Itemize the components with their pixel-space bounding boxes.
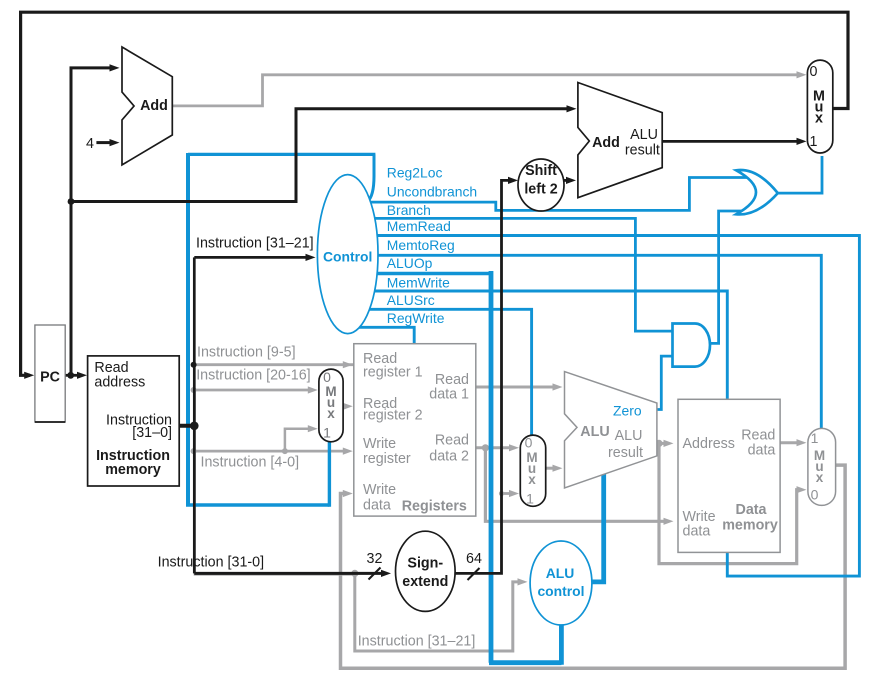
wire Data memory Read data to final mux input 1 [780,441,797,444]
arrowhead into final mux 1 [797,439,807,446]
svg-text:Instruction [9-5]: Instruction [9-5] [197,344,296,360]
svg-text:Zero: Zero [613,402,642,418]
wire constant 4 into Add [96,141,111,144]
arrowhead into ALU bottom input [553,465,563,472]
svg-text:data 2: data 2 [429,448,469,464]
wire Read data 2 to ALUSrc mux input 0 [476,446,510,449]
svg-text:Write: Write [363,436,396,452]
arrowhead PC+4 into Mux 0 [797,71,807,78]
control unit oval [317,175,378,334]
svg-text:1: 1 [811,430,819,446]
svg-text:ALUSrc: ALUSrc [387,292,435,308]
junction dot sign-extend input [351,570,358,577]
wire branch Add result to PCsrc mux input 1 [662,140,798,143]
svg-text:register: register [363,451,411,467]
wire Read data 2 branch to Data memory Write data [485,448,665,522]
wire ALU control output to ALU control port [590,471,604,582]
svg-text:Address: Address [683,436,735,452]
svg-text:Uncondbranch: Uncondbranch [387,184,477,200]
svg-text:result: result [625,143,660,159]
slash 64-bit bus mark [468,568,480,580]
junction dot ALU result branch [655,440,662,447]
arrowhead Instruction [31-21] into Control [306,254,316,261]
svg-text:0: 0 [810,64,818,80]
arrowhead into PC [24,372,34,379]
svg-text:Add: Add [592,135,620,151]
svg-text:MemRead: MemRead [387,218,451,234]
wire ALU result branch to final mux input 0 [659,443,798,563]
svg-text:x: x [815,111,823,127]
wire gray bus sliver between field taps [195,390,355,575]
svg-text:Instruction [31–21]: Instruction [31–21] [196,236,314,252]
svg-text:ALU: ALU [630,127,658,143]
svg-text:register 2: register 2 [363,408,423,424]
wire Uncondbranch control signal to OR gate top input [366,178,748,211]
ALUSrc mux [520,435,545,506]
OR gate [736,170,778,214]
svg-text:Read: Read [741,428,775,444]
svg-text:[31–0]: [31–0] [132,425,172,441]
svg-text:control: control [537,583,584,599]
PCsrc mux (top right) [807,60,832,153]
data memory box [678,399,780,552]
wire 64-bit sign-extend branch to ALUSrc mux input 1 [502,492,511,495]
arrowhead into Write register [343,448,353,455]
wire ALU result to Data memory Address [657,442,665,445]
wire PC value up to Add input and branch-adder line [71,68,112,375]
wire PC value to branch Add top input [71,109,569,202]
svg-text:Reg2Loc: Reg2Loc [387,164,443,180]
svg-text:x: x [528,472,536,487]
svg-text:data: data [683,524,711,540]
arrowhead Instruction [31-0] into Sign-extend [381,570,391,577]
svg-text:1: 1 [323,425,331,441]
svg-text:memory: memory [105,462,161,478]
wire MemRead control signal to Data memory read port [374,236,859,577]
arrowhead into Add top input [110,64,120,71]
svg-text:Add: Add [140,98,168,114]
arrowhead into branch Add top input [567,105,577,112]
svg-text:memory: memory [722,518,778,534]
svg-text:64: 64 [466,551,482,567]
arrowhead into ALUSrc mux 0 [509,444,519,451]
arrowhead into ALU control [518,578,528,585]
arrowhead into Registers Write data [343,490,353,497]
svg-text:result: result [608,445,643,461]
arrowhead Shift left 2 output into branch Add [566,177,576,184]
wire instruction bus vertical [193,257,196,573]
wire Instruction [31-21] to ALU control [355,573,519,651]
wire Branch control signal to AND gate top input [370,218,676,331]
registers box [354,344,476,516]
svg-text:Data: Data [736,502,768,518]
svg-text:PC: PC [40,370,60,386]
svg-text:data 1: data 1 [429,387,469,403]
svg-text:Read: Read [435,433,469,449]
svg-text:Control: Control [323,249,372,265]
arrowhead into Reg2Loc mux 0 [308,386,318,393]
svg-text:ALUOp: ALUOp [387,255,433,271]
wire Reg2Loc mux output to Read register 2 [342,405,346,408]
instruction memory box [88,356,180,486]
adder Add (PC+4) [122,47,172,165]
svg-text:1: 1 [526,491,534,507]
PC register box [35,325,65,422]
svg-text:data: data [363,497,391,513]
svg-text:Instruction [31–21]: Instruction [31–21] [358,634,476,650]
svg-text:32: 32 [367,551,383,567]
Reg2Loc mux [319,369,343,442]
wire RegWrite control signal to Registers write port [358,327,414,347]
svg-text:Branch: Branch [387,202,431,218]
wire PC+4 from Add to Mux input 0 [172,75,797,106]
svg-text:address: address [94,375,145,391]
svg-text:left 2: left 2 [524,182,557,198]
arrowhead into final mux 0 [797,486,807,493]
slash 32-bit bus mark [369,568,381,580]
wire write-back from final mux output to Registers Write data [341,465,846,668]
junction dot Instruction [9-5] [191,362,197,368]
arrowhead into ALUSrc mux 1 [509,490,519,497]
svg-text:MemWrite: MemWrite [387,275,450,291]
wire ALUSrc control signal to ALUSrc mux select [368,309,532,439]
wire Sign-extend 64-bit output up to Shift left 2 [454,180,511,573]
wire Read data 1 to ALU input [476,386,554,389]
shift left 2 oval [518,159,564,211]
svg-text:Instruction [4-0]: Instruction [4-0] [201,455,300,471]
junction dot PC to branch adder [68,198,75,205]
arrowhead into Instruction memory Read address [77,372,87,379]
svg-text:Sign-: Sign- [407,556,443,572]
svg-text:x: x [816,470,824,485]
wire Zero output of ALU to AND gate bottom input [657,356,676,409]
svg-text:data: data [748,442,776,458]
wire MemWrite control signal to Data memory write port [373,291,727,403]
svg-text:ALU: ALU [580,424,609,440]
junction dot 64-bit branch to ALUSrc mux [499,491,504,496]
svg-text:4: 4 [86,136,94,152]
svg-text:0: 0 [323,369,331,385]
wire MemtoReg control signal to final mux select [376,255,821,432]
svg-text:RegWrite: RegWrite [387,310,445,326]
wire AND gate output to OR gate bottom input [709,211,748,343]
arrowhead into Reg2Loc mux 1 [308,425,318,432]
wire PC feedback loop from PCsrc mux output around top to PC input [21,12,848,375]
arrowhead into Data memory Address [664,440,674,447]
svg-text:ALU: ALU [615,428,643,444]
arrowhead into Read register 2 [343,403,353,410]
ALU [565,372,657,488]
arrowhead 4 into Add [110,139,120,146]
svg-text:Instruction [20-16]: Instruction [20-16] [196,367,310,383]
sign-extend oval [396,531,456,611]
svg-text:extend: extend [402,574,448,590]
MemtoReg final mux [808,428,836,505]
svg-text:register 1: register 1 [363,365,423,381]
junction dot Instruction [4-0] branch [282,448,288,454]
wire Instruction [4-0] branch to Reg2Loc mux input 1 [285,429,309,451]
ALU control oval [530,541,592,625]
svg-text:Write: Write [683,509,716,525]
wire PC output to Instruction memory Read address [65,374,79,377]
svg-text:0: 0 [525,435,533,451]
svg-text:x: x [327,406,335,421]
wire Instruction [4-0] to Write register [194,450,344,453]
svg-text:1: 1 [810,134,818,150]
wire ALUSrc mux output to ALU input [546,467,553,470]
wire ALUOp control signal to ALU control [375,272,491,276]
wire Instruction [31-21] to Control [194,256,308,259]
arrowhead into ALU top input [553,383,563,390]
svg-text:Shift: Shift [525,163,557,179]
junction dot Read data 2 branch [482,444,489,451]
AND gate [673,324,710,367]
svg-text:MemtoReg: MemtoReg [387,237,455,253]
wire Shift left 2 output to branch Add bottom input [562,179,569,182]
wire Instruction [9-5] to Read register 1 [194,363,353,366]
svg-text:Instruction [31-0]: Instruction [31-0] [158,555,265,571]
wire OR gate output to PCsrc mux select [777,156,822,193]
arrowhead into Data memory Write data [664,518,674,525]
svg-text:Write: Write [363,482,396,498]
wire Reg2Loc control signal to Reg2Loc mux select [368,154,375,201]
adder Add (branch target) [578,83,662,198]
wire Instruction [20-16] to Reg2Loc mux input 0 [194,389,309,392]
arrowhead into Read register 1 [343,361,353,368]
wire Instruction memory output stub [179,424,196,428]
svg-text:ALU: ALU [546,565,575,581]
junction dot instruction bus main [190,422,199,431]
wire Instruction [31-0] to Sign-extend [194,572,383,575]
svg-text:Registers: Registers [402,499,467,515]
junction dot PC output [67,372,74,379]
arrowhead into Shift left 2 [508,177,518,184]
svg-text:0: 0 [811,487,819,503]
junction dot Instruction [4-0] [191,448,197,454]
junction dot Instruction [20-16] [191,387,197,393]
arrowhead branch Add result into PCsrc mux 1 [797,138,807,145]
